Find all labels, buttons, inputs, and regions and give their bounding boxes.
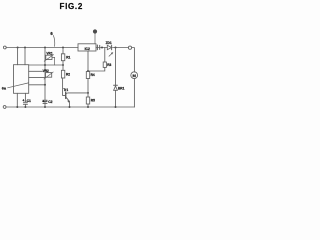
wire C1 to bottom rail (24, 105, 26, 108)
wire bottom rail (6, 106, 135, 108)
node junction bottom rail x69.5 (69, 106, 71, 108)
diode ZD1 on rail (107, 45, 111, 49)
motor M1 (131, 72, 138, 79)
wire R2 down to transistor base (63, 78, 66, 95)
label Tr1 (63, 88, 68, 92)
svg-text:+: + (42, 100, 44, 104)
label ZD1 (106, 41, 112, 45)
resistor R2 (62, 65, 64, 70)
svg-text:FIG.2: FIG.2 (60, 2, 84, 11)
transistor Tr1 (65, 92, 67, 98)
wire pin A horizontal y65 (29, 64, 63, 66)
svg-text:VR2: VR2 (43, 69, 49, 73)
node junction bottom rail x45 (44, 106, 46, 108)
IC block IC2 (78, 44, 96, 51)
wire block top pin x25.4 (24, 48, 26, 65)
svg-text:R4: R4 (91, 73, 95, 77)
svg-text:+: + (22, 98, 24, 102)
label R2 (66, 72, 70, 76)
node junction rail x63 (62, 47, 64, 49)
label VR2 (43, 69, 49, 73)
svg-text:BR1: BR1 (118, 87, 125, 91)
wire R4 to collector node (87, 79, 89, 98)
node junction x88 y71 (87, 70, 89, 72)
label 6 with lead line (50, 31, 53, 36)
resistor R4 (86, 72, 89, 79)
wire block bottom pin x17.3 to bottom rail (16, 93, 18, 107)
node junction bottom rail x25.4 (24, 106, 26, 108)
capacitor C1 (23, 102, 27, 104)
label VR1 (46, 51, 52, 55)
wire center vertical x45 (44, 48, 46, 108)
variable resistor VR1 (46, 55, 52, 59)
node junction rail x17.8 (17, 47, 19, 49)
wire IC2 bottom down x88 (87, 51, 89, 72)
svg-text:R5: R5 (91, 98, 95, 102)
svg-text:C2: C2 (48, 100, 52, 104)
wire R3 bottom corner to x88 (88, 67, 105, 71)
wire lead line 6a (8, 83, 29, 88)
label +C1 (22, 98, 31, 102)
IC block U1 left (14, 65, 29, 94)
wire lead line 6 (53, 36, 54, 47)
svg-text:R1: R1 (66, 56, 70, 60)
node junction rail x25.4 (24, 47, 26, 49)
capacitor on rail right of IC2 (97, 45, 99, 50)
node junction bottom rail x88 (87, 106, 89, 108)
node junction bottom rail x114.5 (115, 106, 117, 108)
label R1 (66, 56, 70, 60)
label lead arrow 7 (109, 53, 113, 57)
label 6a with lead arrow (2, 86, 7, 90)
resistor R3 (104, 48, 106, 63)
wire BR1 branch x114.5 (115, 48, 117, 86)
node junction collector x88 (87, 92, 89, 94)
variable resistor VR2 (46, 73, 52, 78)
node junction rail x102 (101, 47, 103, 49)
title FIG.2 (60, 2, 84, 11)
wire pin C horizontal y77.4 (29, 76, 46, 78)
wire BR1 to bottom rail (115, 91, 117, 108)
svg-text:6: 6 (50, 31, 53, 36)
svg-text:M: M (133, 73, 137, 78)
node junction x45 y65 (44, 64, 46, 66)
node junction rail x114.5 (115, 47, 117, 49)
wire emitter to bottom rail (69, 101, 71, 107)
wire block bottom pin x25.4 down to C1 (24, 93, 26, 102)
terminal circle bottom-left (3, 106, 6, 109)
node junction bottom rail x17.3 (16, 106, 18, 108)
svg-text:C1: C1 (27, 99, 31, 103)
resistor R1 (62, 48, 64, 54)
label R5 (91, 98, 95, 102)
node junction rail x45 (44, 47, 46, 49)
wire pin D horizontal y84.8 (29, 84, 45, 86)
wire top rail right of IC2 (96, 47, 134, 49)
wire top rail left (6, 47, 78, 49)
wire R5 to bottom rail (87, 104, 89, 107)
capacitor C2 (43, 100, 47, 101)
node junction x45 y84.8 (44, 84, 46, 86)
terminal circle on rail right (128, 46, 131, 49)
label R4 (91, 73, 95, 77)
svg-text:R3: R3 (107, 63, 111, 67)
wire right edge down from top rail (133, 48, 135, 72)
svg-text:VR1: VR1 (46, 51, 52, 55)
label IC2 (85, 47, 90, 51)
wire block top pin x17.8 (17, 48, 19, 65)
wire right edge below motor (133, 79, 135, 108)
wire VR1 right drop (52, 57, 55, 65)
svg-text:6a: 6a (2, 86, 7, 90)
label +C2 (42, 100, 52, 105)
resistor R5 (86, 97, 89, 104)
label dot 8 with stem (93, 29, 97, 33)
terminal circle top-left (3, 46, 6, 49)
svg-text:R2: R2 (66, 72, 70, 76)
label BR1 (118, 87, 125, 91)
svg-text:IC2: IC2 (85, 47, 90, 51)
wire pin B horizontal y71.3 (29, 70, 43, 72)
label R3 (107, 63, 111, 67)
svg-text:Tr1: Tr1 (63, 88, 68, 92)
node junction x63 y65 (62, 64, 64, 66)
diode BR1 (114, 86, 118, 90)
svg-text:ZD1: ZD1 (106, 41, 112, 45)
wire R1 to node y65 (62, 61, 64, 65)
